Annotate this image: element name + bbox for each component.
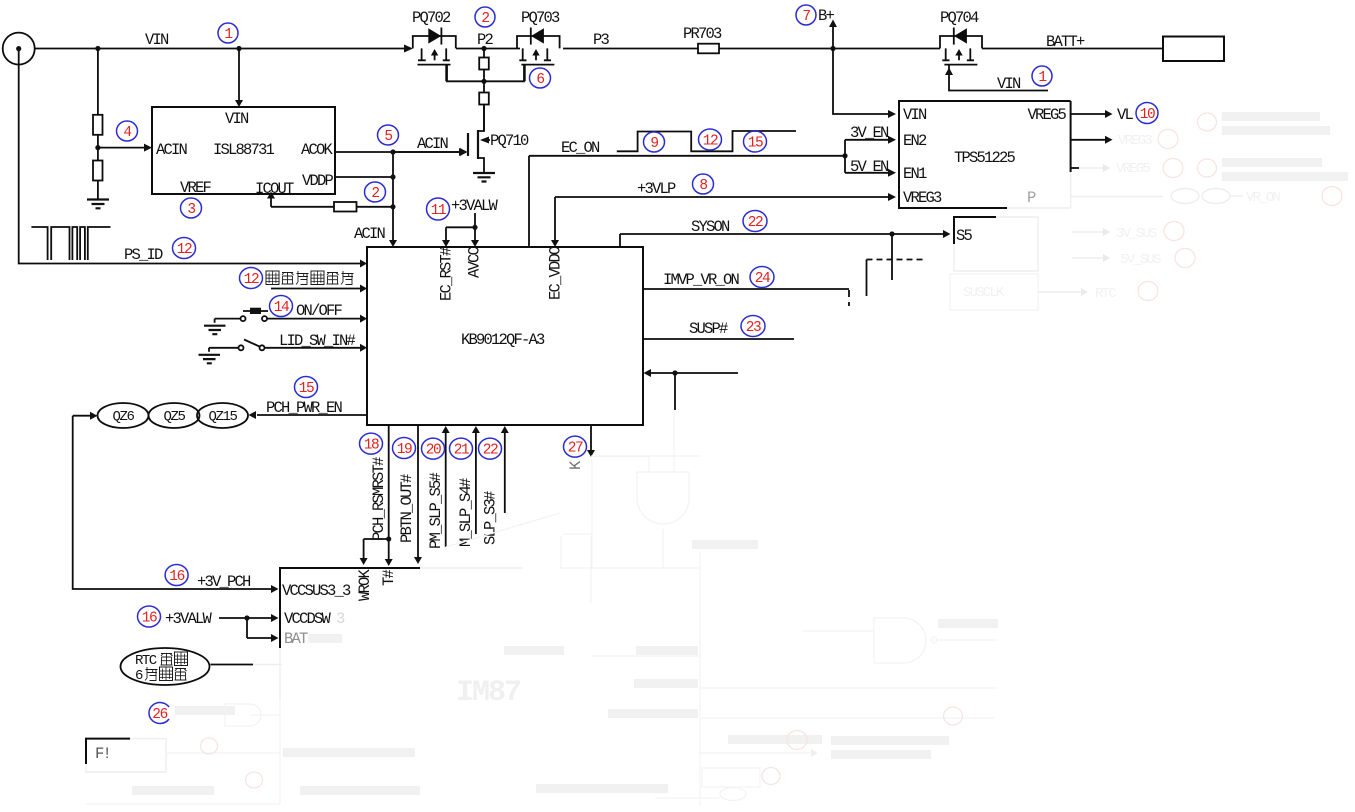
svg-text:19: 19	[397, 442, 412, 458]
svg-text:VREF: VREF	[180, 179, 212, 197]
svg-text:VREG5: VREG5	[1027, 106, 1066, 124]
svg-text:PS_ID: PS_ID	[124, 246, 163, 264]
svg-text:VIN: VIN	[903, 106, 927, 124]
svg-text:VREG5: VREG5	[1116, 161, 1150, 177]
svg-text:6: 6	[135, 668, 143, 684]
svg-text:IMVP_VR_ON: IMVP_VR_ON	[663, 271, 740, 289]
svg-text:12: 12	[244, 272, 259, 288]
svg-text:WROK: WROK	[356, 568, 374, 601]
svg-text:PQ710: PQ710	[490, 132, 529, 150]
svg-text:18: 18	[364, 438, 379, 454]
svg-text:VCCDSW: VCCDSW	[284, 610, 332, 628]
svg-text:20: 20	[426, 443, 441, 459]
svg-text:ACIN: ACIN	[354, 225, 386, 243]
svg-text:QZ15: QZ15	[208, 409, 237, 425]
svg-text:5V_SUS: 5V_SUS	[1120, 252, 1161, 268]
svg-text:15: 15	[748, 136, 763, 152]
svg-text:K: K	[567, 460, 585, 470]
svg-text:SUSP#: SUSP#	[689, 320, 728, 338]
svg-text:22: 22	[483, 443, 498, 459]
svg-text:PQ703: PQ703	[521, 9, 560, 27]
svg-text:PCH_PWR_EN: PCH_PWR_EN	[266, 399, 343, 417]
svg-text:QZ5: QZ5	[163, 409, 185, 425]
svg-text:AVCC: AVCC	[466, 246, 484, 278]
svg-text:24: 24	[755, 271, 770, 287]
svg-text:VIN: VIN	[997, 75, 1021, 93]
svg-text:5: 5	[384, 129, 392, 145]
svg-text:PBTN_OUT#: PBTN_OUT#	[398, 474, 416, 543]
svg-text:3V_EN: 3V_EN	[850, 124, 889, 142]
svg-text:S5: S5	[956, 227, 973, 245]
svg-text:PR703: PR703	[683, 25, 722, 43]
svg-text:SLP_S3#: SLP_S3#	[482, 491, 500, 545]
svg-text:4: 4	[123, 125, 131, 141]
svg-text:BATT+: BATT+	[1046, 33, 1085, 51]
svg-text:M_SLP_S4#: M_SLP_S4#	[457, 478, 475, 547]
svg-text:8: 8	[699, 178, 707, 194]
svg-text:EN2: EN2	[903, 132, 927, 150]
svg-text:RTC: RTC	[135, 653, 157, 669]
svg-text:EC_VDDO: EC_VDDO	[547, 246, 565, 300]
svg-text:VIN: VIN	[225, 110, 249, 128]
svg-text:2: 2	[371, 186, 379, 202]
svg-text:PQ702: PQ702	[412, 9, 451, 27]
svg-text:11: 11	[431, 203, 446, 219]
svg-text:P2: P2	[477, 31, 494, 49]
svg-text:14: 14	[274, 300, 289, 316]
svg-text:+3V_PCH: +3V_PCH	[197, 573, 251, 591]
svg-text:P: P	[1027, 189, 1036, 207]
svg-text:6: 6	[536, 72, 544, 88]
svg-text:VREG3: VREG3	[1118, 133, 1152, 149]
svg-text:7: 7	[802, 9, 810, 25]
svg-text:PM_SLP_S5#: PM_SLP_S5#	[427, 472, 445, 549]
svg-text:ACOK: ACOK	[301, 141, 334, 159]
svg-text:27: 27	[568, 441, 583, 457]
svg-text:15: 15	[299, 381, 314, 397]
svg-text:ICOUT: ICOUT	[255, 180, 294, 198]
svg-text:+3VALW: +3VALW	[165, 610, 213, 628]
svg-text:VL: VL	[1117, 106, 1134, 124]
svg-text:22: 22	[748, 215, 763, 231]
svg-text:1: 1	[224, 27, 232, 43]
svg-text:KB9012QF-A3: KB9012QF-A3	[461, 331, 545, 349]
svg-text:ON/OFF: ON/OFF	[296, 302, 343, 320]
svg-text:B+: B+	[818, 7, 835, 25]
svg-text:VREG3: VREG3	[903, 189, 942, 207]
svg-text:QZ6: QZ6	[112, 409, 134, 425]
svg-text:RTC: RTC	[1095, 286, 1116, 302]
svg-text:SUSCLK: SUSCLK	[963, 285, 1005, 301]
svg-text:PCH_RSMRST#: PCH_RSMRST#	[370, 457, 388, 541]
svg-text:EC_ON: EC_ON	[561, 139, 600, 157]
svg-text:IM87: IM87	[456, 676, 520, 710]
svg-text:3: 3	[336, 610, 345, 628]
svg-text:26: 26	[152, 707, 167, 723]
svg-text:PQ704: PQ704	[940, 9, 979, 27]
svg-text:TPS51225: TPS51225	[954, 149, 1016, 167]
svg-text:VCCSUS3_3: VCCSUS3_3	[282, 582, 351, 600]
svg-text:3V_SUS: 3V_SUS	[1116, 226, 1157, 242]
svg-text:10: 10	[1140, 107, 1155, 123]
svg-text:ISL88731: ISL88731	[213, 141, 275, 159]
svg-text:21: 21	[454, 443, 469, 459]
svg-text:ACIN: ACIN	[156, 141, 188, 159]
svg-text:SYSON: SYSON	[691, 218, 730, 236]
svg-text:5V_EN: 5V_EN	[850, 158, 889, 176]
svg-text:23: 23	[746, 320, 761, 336]
svg-text:2: 2	[481, 11, 489, 27]
svg-text:EC_RST#: EC_RST#	[438, 247, 456, 301]
svg-text:12: 12	[177, 242, 192, 258]
svg-text:+3VLP: +3VLP	[637, 180, 676, 198]
svg-text:EN1: EN1	[903, 165, 927, 183]
svg-text:12: 12	[703, 134, 718, 150]
svg-text:+3VALW: +3VALW	[451, 197, 499, 215]
svg-text:16: 16	[169, 569, 184, 585]
svg-text:9: 9	[650, 136, 658, 152]
svg-text:LID_SW_IN#: LID_SW_IN#	[279, 332, 356, 350]
svg-text:1: 1	[1038, 70, 1046, 86]
svg-text:VR_ON: VR_ON	[1246, 190, 1280, 206]
svg-text:16: 16	[142, 611, 157, 627]
svg-text:BAT: BAT	[284, 630, 308, 648]
svg-text:VDDP: VDDP	[302, 172, 334, 190]
svg-text:VIN: VIN	[145, 31, 169, 49]
svg-text:P3: P3	[593, 31, 610, 49]
svg-text:ACIN: ACIN	[417, 135, 449, 153]
svg-text:T#: T#	[380, 569, 398, 586]
svg-text:3: 3	[187, 202, 195, 218]
svg-text:F!: F!	[95, 745, 110, 763]
